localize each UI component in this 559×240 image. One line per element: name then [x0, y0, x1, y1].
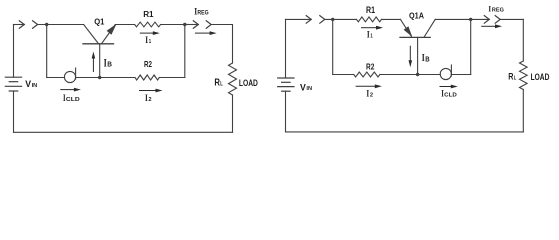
wire mid rail from corner through R2 (right circuit) [333, 74, 354, 76]
wire bottom rail (right circuit) [286, 131, 524, 133]
svg-text:V: V [300, 82, 306, 92]
wire node C down to mid rail (right circuit) [332, 19, 334, 74]
battery VIN (left circuit) [5, 77, 21, 91]
wire left vertical top (VIN+ to top rail, left circuit) [13, 25, 15, 78]
svg-text:R2: R2 [366, 61, 375, 71]
wire chevron (right circuit input) [320, 16, 325, 24]
node D junction dot [469, 18, 472, 21]
wire to top-right corner (right circuit) [500, 18, 523, 20]
wire with IREG arrowhead (left circuit) [185, 24, 199, 26]
svg-text:1: 1 [370, 34, 373, 40]
wire node B down to mid rail [184, 25, 186, 78]
wire right vertical to load (right circuit) [522, 19, 524, 61]
wire RL to bottom rail (left circuit) [232, 95, 234, 132]
wire chevron to node C [325, 18, 357, 20]
svg-text:IN: IN [32, 83, 38, 89]
wire chevron (left circuit input) [33, 21, 38, 29]
node C junction dot [331, 18, 334, 21]
wire chevron IREG (left circuit) [206, 21, 211, 29]
wire R1 to emitter (right circuit) [382, 18, 401, 20]
arrow IB up (left circuit) [92, 58, 94, 72]
transistor Q1 (collector diagonal, base bar, emitter diagonal with arrow) [83, 24, 117, 78]
arrow I2 (left circuit) [139, 90, 156, 92]
wire RL to bottom rail (right circuit) [522, 90, 524, 132]
wire R1 to node B [161, 24, 185, 26]
svg-text:1: 1 [149, 39, 152, 45]
arrow I1 (left circuit) [140, 32, 154, 34]
CLD current limiting diode symbol (left circuit) [64, 68, 75, 83]
transistor Q1A (emitter diagonal with inward arrow, base bar, collector diagonal) [400, 19, 435, 74]
resistor R1 (left circuit) [135, 22, 161, 27]
arrow ICLD (left circuit) [60, 89, 74, 91]
wire collector to node D (right circuit) [435, 18, 471, 20]
svg-text:CLD: CLD [444, 92, 457, 98]
resistor RL load (left circuit) [229, 63, 237, 95]
wire R2 to base node to CLD (right circuit) [380, 74, 440, 76]
wire with IREG arrowhead (right circuit) [471, 18, 490, 20]
current annotation arrows (filled) [60, 24, 502, 92]
resistor R2 (left circuit) [135, 75, 159, 80]
wire left vertical top (right circuit) [285, 19, 287, 78]
svg-text:B: B [425, 56, 429, 63]
wire top rail segment with current arrow (left circuit) [14, 24, 25, 26]
node B junction dot [183, 23, 186, 26]
svg-text:R2: R2 [144, 59, 152, 69]
arrow ICLD (right circuit) [440, 86, 452, 88]
svg-text:R1: R1 [366, 5, 375, 15]
resistor RL load (right circuit) [520, 61, 528, 90]
svg-text:LOAD: LOAD [239, 78, 258, 88]
wire CLD to mid-rail corner (right circuit) [451, 74, 470, 76]
wire node A down to CLD branch [46, 25, 48, 78]
resistor R1 (right circuit) [357, 17, 382, 22]
wire emitter to R1 (left circuit) [115, 24, 134, 26]
battery VIN (right circuit) [278, 78, 294, 91]
wire left vertical bottom (right circuit) [285, 91, 287, 132]
svg-text:CLD: CLD [66, 97, 80, 103]
arrow IB down (right circuit) [409, 46, 411, 61]
svg-text:I: I [145, 35, 148, 46]
CLD current limiting diode symbol (right circuit) [440, 65, 451, 80]
wire CLD to base node to R2 (left circuit) [76, 77, 135, 79]
node A junction dot [45, 23, 48, 26]
svg-text:L: L [220, 81, 223, 88]
wire mid rail left segment to CLD (left circuit) [47, 77, 65, 79]
svg-text:2: 2 [370, 93, 373, 99]
arrow I1 (right circuit) [361, 27, 376, 29]
arrow IREG (left circuit) [195, 32, 210, 34]
arrow I2 (right circuit) [356, 85, 376, 87]
wire chevron IREG (right circuit) [495, 16, 500, 24]
wire to top-right corner (left circuit) [211, 24, 232, 26]
wire node D down to mid rail (right circuit) [470, 19, 472, 74]
wire left vertical bottom (battery to bottom rail, left circuit) [13, 91, 15, 132]
svg-text:IN: IN [306, 86, 312, 92]
wire right vertical to load (left circuit) [232, 25, 234, 64]
svg-text:Q1: Q1 [94, 17, 104, 27]
node base junction dot (left circuit) [98, 76, 101, 79]
svg-text:REG: REG [197, 10, 208, 17]
svg-text:2: 2 [148, 97, 151, 103]
svg-text:L: L [514, 76, 517, 82]
svg-text:REG: REG [492, 8, 504, 14]
wire node A to emitter side [38, 24, 84, 26]
wire bottom rail (left circuit) [14, 131, 233, 133]
svg-text:B: B [107, 60, 112, 69]
wire R2 to mid-rail corner (left circuit) [159, 77, 185, 79]
resistor R2 (right circuit) [354, 72, 380, 77]
svg-text:R1: R1 [143, 9, 154, 19]
svg-text:Q1A: Q1A [409, 11, 424, 20]
wire top rail with input arrow (right circuit) [286, 18, 312, 20]
svg-text:LOAD: LOAD [531, 72, 550, 82]
node base junction dot (right circuit) [416, 73, 419, 76]
arrow IREG (right circuit) [481, 25, 495, 27]
